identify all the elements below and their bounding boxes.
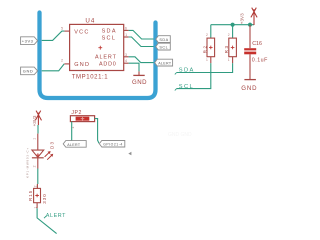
svg-text:SCL: SCL: [159, 46, 168, 50]
wire JP2 pin2 to GPIO label: [95, 119, 99, 144]
svg-text:0.1uF: 0.1uF: [252, 58, 268, 64]
wire +3V3 rail (top right): [211, 24, 254, 26]
resistor R3: [229, 38, 237, 57]
svg-text:+3V3: +3V3: [32, 115, 37, 126]
wire net SCL: [177, 63, 211, 89]
label +3V3 (left): [21, 37, 38, 45]
wire pin3 to bus (ALERT): [129, 57, 154, 63]
label ALERT (right of bus): [155, 59, 173, 66]
svg-text:GND GND: GND GND: [168, 132, 192, 138]
pin 2 stub (GND): [64, 63, 69, 65]
wire JP2 pin1 to ALERT label: [65, 122, 72, 144]
svg-text:SDA: SDA: [159, 38, 168, 42]
bus B$1 (blue U-shaped bus): [40, 13, 156, 99]
svg-text:+3V3: +3V3: [22, 38, 34, 43]
svg-text:+3V3: +3V3: [239, 13, 244, 24]
svg-text:GND: GND: [74, 62, 90, 68]
pin 5 stub (VCC): [64, 30, 69, 32]
wire pin6 to bus (SDA): [129, 30, 154, 39]
resistor R15: [34, 188, 41, 202]
label GPIO (below JP2): [99, 141, 125, 148]
svg-text:1: 1: [32, 138, 36, 140]
svg-text:GPIO21-4: GPIO21-4: [103, 143, 123, 147]
svg-text:KP1-MW803-C+: KP1-MW803-C+: [26, 147, 30, 178]
wire LED to R15: [37, 169, 39, 185]
LED cathode pin: [37, 158, 39, 169]
ground under C16: [244, 79, 256, 81]
resistor R2: [207, 38, 215, 57]
svg-text:TMP1021:1: TMP1021:1: [72, 75, 108, 81]
junction at R3 top: [231, 23, 235, 27]
wire GND label to GND pin: [42, 64, 64, 71]
svg-text:C16: C16: [252, 41, 262, 47]
svg-text:2: 2: [206, 33, 208, 37]
pin 1 stub (SCL): [124, 36, 129, 38]
wire end tick SCL: [175, 89, 177, 91]
wire R15 to ALERT net: [37, 208, 57, 233]
svg-text:6: 6: [125, 26, 127, 30]
LED light arrow 1: [45, 152, 50, 157]
svg-text:R15: R15: [28, 190, 33, 201]
svg-text:ALERT: ALERT: [46, 213, 66, 219]
R15 origin cross: [35, 194, 39, 198]
svg-text:3: 3: [125, 53, 127, 57]
pin 3 stub (ALERT): [124, 56, 129, 58]
power +3V3 arrow (top right): [251, 8, 257, 25]
R3 bottom pin stub: [232, 57, 234, 63]
svg-text:R3: R3: [224, 44, 229, 53]
wire +3V3 label to VCC pin: [42, 31, 65, 40]
R2 bottom pin stub: [210, 57, 212, 63]
power +3V3 arrow (LED branch): [35, 111, 41, 125]
wire pin4 ADD0 to ground: [129, 63, 139, 71]
wire net SDA: [177, 63, 233, 72]
svg-text:ALERT: ALERT: [158, 62, 172, 66]
LED origin cross: [36, 153, 40, 157]
svg-text:2: 2: [34, 185, 38, 187]
op-amp U1: IC U4 TMP102 body: [70, 24, 124, 70]
svg-text:4: 4: [125, 59, 127, 63]
R15 bottom pin: [36, 203, 38, 209]
LED cathode bar: [32, 157, 44, 159]
wire R3 top: [232, 25, 234, 38]
label GND (left): [21, 67, 38, 75]
capacitor C16: [249, 25, 251, 48]
pin 4 stub (ADD0): [124, 62, 129, 64]
svg-text:GND: GND: [23, 69, 34, 74]
wire pin1 to bus (SCL): [129, 37, 154, 47]
LED light arrow 2: [47, 155, 52, 160]
label tick ALERT: [44, 216, 46, 218]
pin 6 stub (SDA): [124, 29, 129, 31]
label SCL (right of bus): [156, 43, 171, 50]
svg-text:GND: GND: [132, 79, 147, 86]
svg-text:330: 330: [42, 193, 47, 204]
svg-text:2: 2: [228, 33, 230, 37]
svg-text:ADD0: ADD0: [99, 62, 117, 68]
label ALERT (below JP2): [63, 141, 86, 148]
svg-text:1: 1: [125, 33, 127, 37]
svg-text:U4: U4: [85, 17, 95, 24]
svg-text:2: 2: [61, 59, 63, 63]
svg-text:GND: GND: [241, 85, 257, 92]
svg-text:2: 2: [32, 165, 36, 167]
svg-text:SDA: SDA: [102, 29, 117, 35]
svg-text:ALERT: ALERT: [95, 55, 117, 61]
ground symbol under U4: [138, 71, 140, 75]
wire R2 top: [210, 25, 212, 38]
svg-text:JP2: JP2: [71, 110, 81, 116]
stray cursor mark: [128, 152, 131, 156]
label SDA (right of bus): [156, 36, 171, 43]
svg-text:R2: R2: [202, 44, 207, 53]
LED D3 anode pin: [37, 134, 39, 151]
wire +3V3 to LED: [37, 125, 39, 134]
junction at C16 top: [248, 23, 252, 27]
svg-text:5: 5: [61, 27, 63, 31]
svg-text:1: 1: [228, 58, 230, 62]
svg-text:1: 1: [206, 58, 208, 62]
svg-text:SCL: SCL: [102, 36, 117, 42]
U4 origin cross: [98, 46, 102, 50]
R15 top pin: [36, 184, 38, 188]
svg-text:VCC: VCC: [74, 29, 90, 35]
svg-text:D3: D3: [49, 141, 54, 149]
svg-text:ALERT: ALERT: [67, 143, 81, 147]
wire end tick SDA: [175, 73, 177, 75]
LED D3 triangle: [32, 150, 44, 157]
